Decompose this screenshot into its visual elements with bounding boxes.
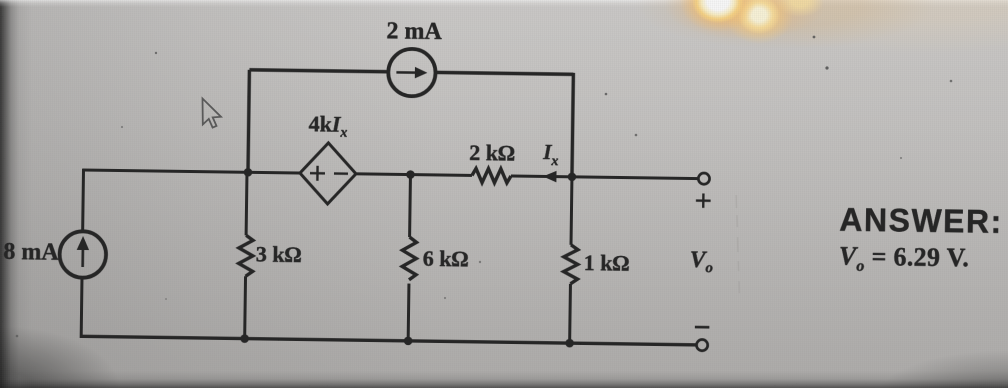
node junction dot (bottom of 3k) (240, 334, 249, 343)
node C junction dot (top of 1k) (568, 172, 577, 181)
resistor 2 kOhm (horizontal zigzag) (472, 168, 511, 183)
plus sign (696, 193, 711, 208)
mouse cursor (199, 95, 239, 135)
wire top-left horizontal segment (249, 70, 387, 72)
wire 6k upper lead (408, 175, 412, 237)
current source 2 mA (388, 49, 436, 97)
resistor 1 kOhm (vertical zigzag) (563, 245, 578, 284)
terminal top (output +) (698, 173, 709, 184)
wire left vertical lower (8mA to bottom) (80, 277, 84, 337)
dependent source 4kIx (diamond) (300, 143, 357, 205)
resistor 3 kOhm (vertical zigzag) (239, 235, 254, 276)
resistor 6 kOhm (vertical zigzag) (402, 237, 417, 280)
wire middle horizontal: left segment (83, 170, 300, 173)
wire left vertical upper (to 8mA source) (81, 169, 85, 232)
wire right vertical (top) (572, 73, 573, 177)
faint screen smudge dashes (735, 195, 741, 293)
node A junction dot (top of 3k) (244, 168, 253, 177)
wire middle horizontal: centre segment (355, 174, 471, 176)
wire 3k upper lead (245, 172, 249, 235)
wire middle horizontal: right segment (511, 176, 698, 179)
wire top-right horizontal segment (436, 72, 573, 74)
node junction dot (bottom of 6k) (404, 336, 413, 345)
wire 1k lower lead (568, 284, 572, 343)
current source 8 mA (59, 231, 106, 278)
wire 6k lower lead (407, 284, 411, 341)
wire bottom horizontal (80, 336, 696, 345)
wire 3k lower lead (243, 276, 247, 338)
current arrow Ix (pointing left) (543, 171, 557, 183)
wire 1k upper lead (570, 177, 574, 245)
node junction dot (bottom of 1k) (565, 339, 574, 348)
terminal bottom (output -) (696, 339, 707, 350)
wire left vertical of top loop (248, 70, 249, 172)
node B junction dot (top of 6k) (406, 170, 415, 179)
minus sign (695, 326, 709, 329)
